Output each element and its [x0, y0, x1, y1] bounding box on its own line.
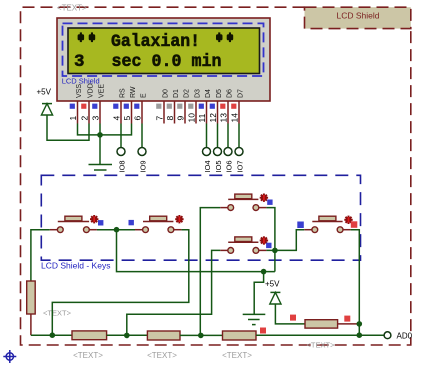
- svg-text:<TEXT>: <TEXT>: [73, 351, 103, 360]
- svg-text:D6: D6: [227, 89, 234, 98]
- svg-text:+5V: +5V: [265, 279, 280, 288]
- LCD text row1 custom glyphs: [78, 32, 234, 42]
- LCD pins: [78, 101, 240, 124]
- svg-text:7: 7: [155, 116, 165, 121]
- svg-text:VSS: VSS: [76, 84, 83, 98]
- +5V power terminal (bottom): [265, 279, 281, 304]
- wire D7 pin14 to IO7: [238, 124, 240, 148]
- terminal IO9: [138, 148, 146, 156]
- resistor R1: [72, 331, 107, 340]
- pin names: [76, 83, 245, 98]
- svg-text:<TEXT>: <TEXT>: [307, 341, 336, 350]
- resistor R3: [223, 331, 257, 340]
- wire +5V to R4: [275, 304, 305, 324]
- pin state squares: [70, 104, 237, 109]
- indicator R4 left: [290, 315, 296, 321]
- resistor R vertical: [27, 281, 36, 335]
- ground (LCD): [89, 165, 113, 171]
- rail R3 to AD0: [256, 334, 384, 336]
- junction common rail to ground: [261, 269, 267, 275]
- resistor R2: [147, 331, 180, 340]
- rail R1-R2: [107, 334, 148, 336]
- wire E pin6 to IO9: [141, 124, 143, 148]
- subcircuit header box LCD Shield: [305, 7, 411, 28]
- svg-text:1: 1: [68, 116, 78, 121]
- wire SW4 right to SW5 left: [266, 230, 304, 251]
- wire SW3 right down to SW4 junction: [266, 208, 275, 251]
- terminal IO8: [117, 148, 125, 156]
- wire SW3 left down to bottom rail: [200, 208, 220, 336]
- svg-text:<TEXT>: <TEXT>: [222, 351, 252, 360]
- svg-text:12: 12: [208, 113, 218, 123]
- svg-text:3: 3: [91, 116, 101, 121]
- +5V power terminal (top): [37, 88, 53, 116]
- svg-text:IO4: IO4: [203, 160, 212, 172]
- svg-text:IO6: IO6: [225, 160, 234, 172]
- svg-text:D5: D5: [216, 89, 223, 98]
- svg-text:5: 5: [122, 116, 132, 121]
- svg-text:LCD Shield - Keys: LCD Shield - Keys: [41, 261, 110, 271]
- wire D4 pin11 to IO4: [206, 124, 208, 148]
- svg-text:RW: RW: [130, 86, 137, 98]
- svg-text:3: 3: [74, 52, 85, 72]
- svg-text:11: 11: [197, 113, 207, 122]
- junction SW2 net: [50, 332, 56, 338]
- wire junction down to common rail: [274, 250, 276, 271]
- svg-text:VDD: VDD: [88, 83, 95, 98]
- LCD LM016L bezel: [57, 18, 270, 101]
- svg-text:6: 6: [133, 116, 143, 121]
- svg-text:IO7: IO7: [236, 160, 245, 172]
- indicator R3 right: [260, 328, 266, 334]
- svg-text:13: 13: [219, 113, 229, 123]
- svg-text:sec 0.0 min: sec 0.0 min: [112, 52, 222, 72]
- button SW5: [297, 216, 357, 233]
- indicator R4 right: [344, 316, 350, 322]
- rail R2-R3: [180, 334, 223, 336]
- svg-text:D7: D7: [238, 89, 245, 98]
- svg-text:IO9: IO9: [139, 160, 148, 172]
- wire RS pin4 to IO8: [120, 124, 122, 148]
- wire rail to ground: [254, 272, 263, 315]
- svg-text:RS: RS: [120, 88, 127, 98]
- wire SW2 right down-left to bottom rail: [52, 230, 189, 336]
- LCD selection dashed box: [63, 23, 264, 76]
- keys subcircuit dashed box: [41, 175, 360, 260]
- wire SW1 left to vertical resistor: [31, 230, 50, 281]
- svg-text:8: 8: [165, 116, 175, 121]
- svg-text:2: 2: [80, 116, 90, 121]
- svg-text:VEE: VEE: [99, 84, 106, 98]
- wire RW pin5 to ground rail: [100, 124, 132, 135]
- svg-text:Galaxian!: Galaxian!: [111, 32, 200, 52]
- svg-text:AD0: AD0: [397, 331, 413, 340]
- resistor R4: [305, 320, 359, 328]
- svg-text:<TEXT>: <TEXT>: [147, 351, 177, 360]
- wire SW5 right down to AD0 node: [351, 230, 360, 336]
- junction SW4 net: [124, 333, 130, 339]
- svg-text:D3: D3: [195, 89, 202, 98]
- button SW2: [129, 215, 184, 233]
- svg-text:4: 4: [112, 116, 122, 121]
- button SW3: [220, 194, 272, 211]
- svg-text:D0: D0: [163, 89, 170, 98]
- junction SW1/SW2: [114, 227, 120, 233]
- wire VEE pin3 down: [99, 124, 101, 165]
- svg-text:10: 10: [187, 113, 197, 123]
- junction bottom rail/AD0: [357, 332, 363, 338]
- wire +5V to VDD pin2: [47, 115, 89, 140]
- junction SW3/SW4: [272, 248, 278, 254]
- junction R4/SW5: [357, 321, 363, 327]
- wire SW4 left elbow to bottom rail: [127, 250, 220, 335]
- pin numbers: [68, 113, 240, 123]
- button SW1: [50, 215, 104, 233]
- svg-text:D2: D2: [184, 89, 191, 98]
- sheet dashed border: [21, 7, 411, 345]
- svg-text:9: 9: [176, 116, 186, 121]
- bottom rail left segment: [31, 334, 72, 336]
- svg-text:IO8: IO8: [118, 160, 127, 172]
- svg-text:LCD Shield: LCD Shield: [337, 11, 380, 21]
- svg-text:D4: D4: [205, 89, 212, 98]
- ground (keys common): [243, 314, 266, 324]
- svg-text:<TEXT>: <TEXT>: [43, 309, 72, 318]
- svg-text:E: E: [141, 93, 148, 98]
- button SW4: [220, 236, 271, 253]
- svg-text:<TEXT>: <TEXT>: [57, 4, 87, 13]
- wire D5 pin12 to IO5: [217, 124, 219, 148]
- wire D6 pin13 to IO6: [227, 124, 229, 148]
- junction pins ground: [97, 132, 103, 138]
- svg-text:14: 14: [230, 113, 240, 123]
- origin marker: [3, 350, 16, 363]
- svg-text:D1: D1: [173, 89, 180, 98]
- junction SW3 net: [198, 333, 204, 339]
- wire SW1 right to SW2 left: [97, 229, 135, 231]
- wire common rail from SW1/SW2 junction: [117, 230, 275, 272]
- svg-text:IO5: IO5: [214, 160, 223, 172]
- terminal AD0: [384, 332, 391, 339]
- LCD screen: [68, 28, 260, 74]
- svg-text:+5V: +5V: [37, 88, 52, 97]
- wire VSS pin1 to ground rail: [78, 124, 101, 135]
